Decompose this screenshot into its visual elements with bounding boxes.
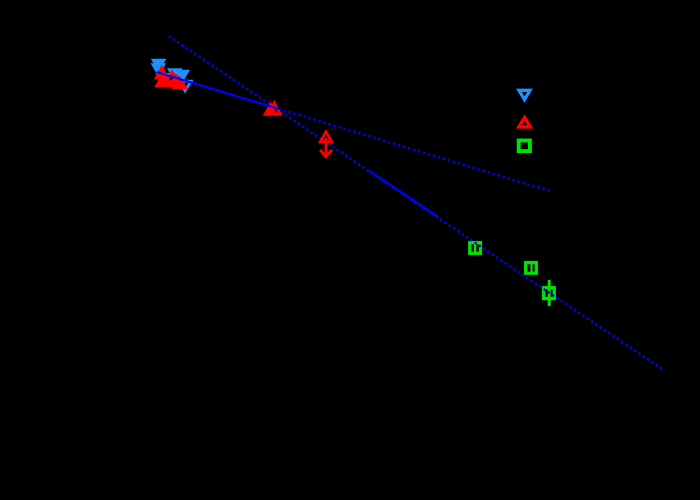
red upper-limit arrow head bbox=[320, 150, 332, 157]
red open triangle R4 bbox=[170, 76, 181, 86]
fit line 1 solid segment bbox=[157, 72, 281, 110]
blue filled triangle B1b bbox=[151, 63, 167, 77]
green open square G1 bbox=[470, 243, 481, 254]
red open triangle R3 bbox=[166, 72, 177, 82]
legend blue open triangle bbox=[519, 90, 530, 99]
legend green open square bbox=[519, 141, 530, 152]
green square G1 error bar bbox=[474, 243, 476, 254]
red filled triangle R2 bbox=[154, 71, 173, 87]
green square G2 error bar bbox=[530, 263, 532, 274]
green open square G2 bbox=[526, 263, 537, 274]
blue filled triangle B2 bbox=[167, 68, 183, 82]
red filled triangle R6 bbox=[263, 102, 279, 116]
fit line 1 dotted extension bbox=[284, 110, 551, 191]
red open triangle R7 bbox=[269, 103, 280, 114]
green square G3 error bar bbox=[548, 280, 551, 306]
red open triangle R5 bbox=[174, 78, 185, 88]
fit line 2 solid segment bbox=[370, 171, 439, 217]
blue filled triangle B1 bbox=[151, 59, 167, 73]
blue open triangle B5 bbox=[179, 81, 191, 91]
fit line 2 dotted bbox=[169, 36, 665, 371]
blue filled triangle B3 bbox=[156, 73, 172, 87]
red upper-limit arrow stem bbox=[325, 138, 328, 156]
red open triangle R8 upper limit bbox=[320, 132, 331, 142]
legend red open triangle bbox=[519, 118, 530, 127]
blue filled triangle B4 bbox=[175, 70, 191, 84]
green open square G3 bbox=[544, 288, 555, 299]
red filled triangle R1 bbox=[154, 65, 170, 80]
